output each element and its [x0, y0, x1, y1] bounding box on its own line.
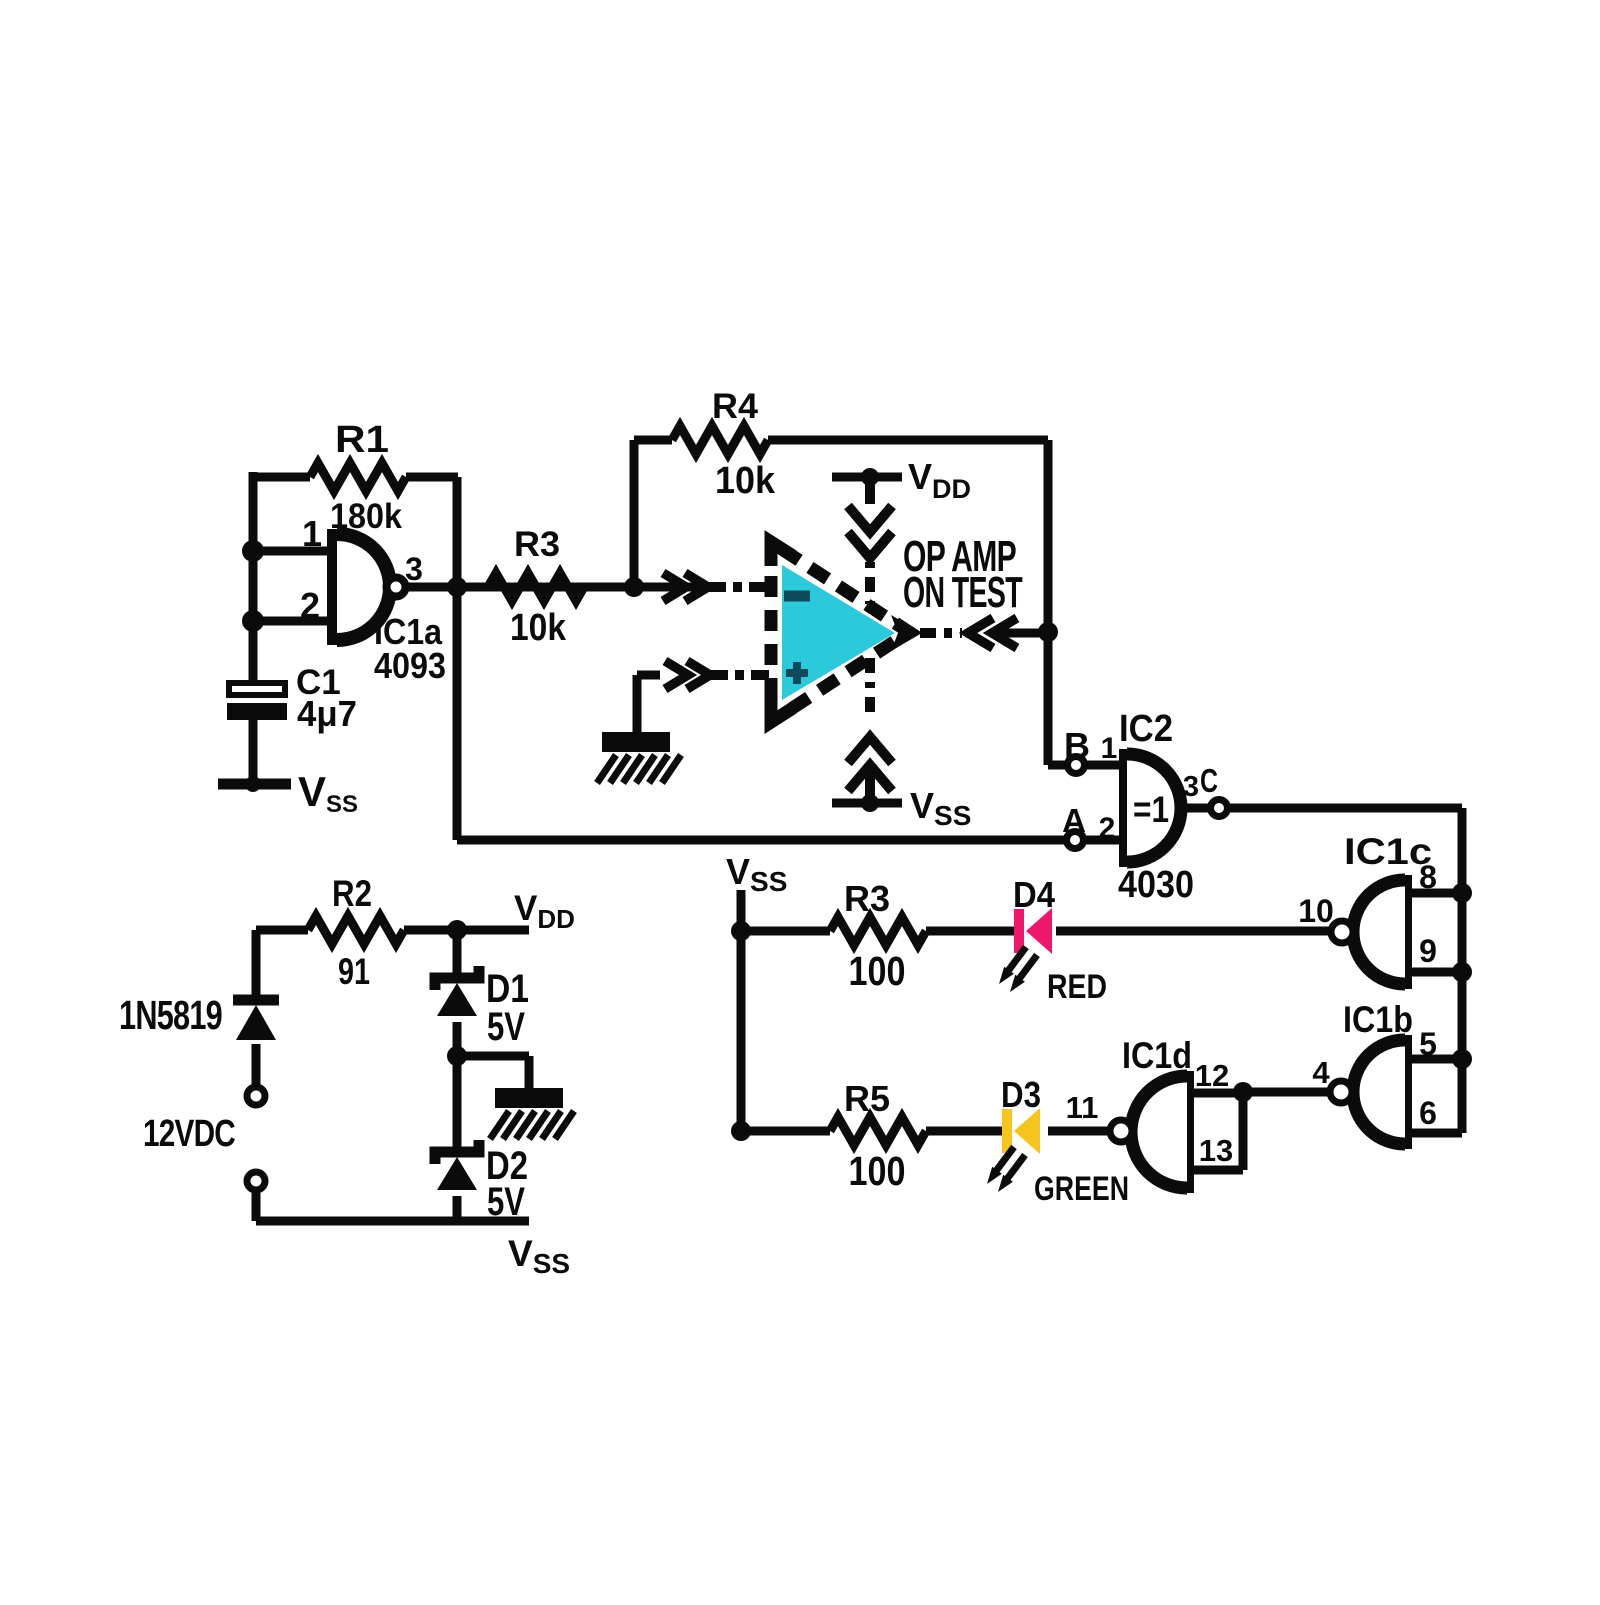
svg-text:100: 100 [849, 948, 906, 994]
svg-text:C: C [1200, 762, 1218, 799]
svg-text:100: 100 [849, 1148, 906, 1194]
svg-text:5V: 5V [487, 1005, 525, 1049]
svg-text:5: 5 [1419, 1026, 1437, 1062]
svg-text:RED: RED [1047, 968, 1107, 1006]
svg-text:91: 91 [338, 951, 370, 992]
svg-text:4μ7: 4μ7 [297, 693, 357, 734]
svg-text:R1: R1 [335, 419, 389, 461]
svg-text:IC1b: IC1b [1343, 999, 1413, 1040]
svg-text:D4: D4 [1013, 874, 1055, 915]
svg-text:11: 11 [1066, 1090, 1099, 1125]
svg-text:3: 3 [405, 551, 423, 587]
svg-text:4030: 4030 [1118, 864, 1194, 906]
svg-text:R5: R5 [844, 1078, 890, 1119]
svg-text:IC1d: IC1d [1122, 1035, 1192, 1076]
svg-text:2: 2 [1099, 812, 1116, 845]
svg-text:B: B [1064, 725, 1090, 766]
svg-text:=1: =1 [1133, 789, 1169, 830]
svg-text:4: 4 [1312, 1055, 1330, 1090]
svg-text:R2: R2 [332, 873, 372, 914]
svg-text:10k: 10k [715, 460, 776, 502]
svg-text:6: 6 [1419, 1095, 1437, 1131]
svg-text:12VDC: 12VDC [143, 1113, 235, 1155]
svg-text:4093: 4093 [374, 645, 446, 686]
svg-text:13: 13 [1199, 1133, 1233, 1168]
svg-text:1N5819: 1N5819 [119, 992, 222, 1038]
svg-text:3: 3 [1183, 771, 1199, 803]
svg-text:12: 12 [1195, 1058, 1229, 1093]
svg-text:R4: R4 [712, 387, 759, 426]
svg-text:IC1c: IC1c [1344, 831, 1432, 872]
svg-text:2: 2 [300, 585, 320, 626]
svg-text:R3: R3 [514, 525, 560, 564]
svg-text:GREEN: GREEN [1034, 1170, 1129, 1208]
svg-text:A: A [1062, 802, 1086, 839]
svg-text:D3: D3 [1001, 1074, 1041, 1115]
svg-text:IC2: IC2 [1119, 708, 1173, 750]
svg-text:1: 1 [302, 513, 322, 554]
svg-text:9: 9 [1419, 933, 1437, 969]
svg-text:ON TEST: ON TEST [903, 568, 1023, 617]
svg-text:R3: R3 [844, 878, 890, 919]
svg-text:10k: 10k [510, 607, 567, 649]
svg-text:1: 1 [1101, 732, 1118, 765]
svg-text:10: 10 [1298, 893, 1334, 929]
svg-text:5V: 5V [487, 1180, 525, 1224]
